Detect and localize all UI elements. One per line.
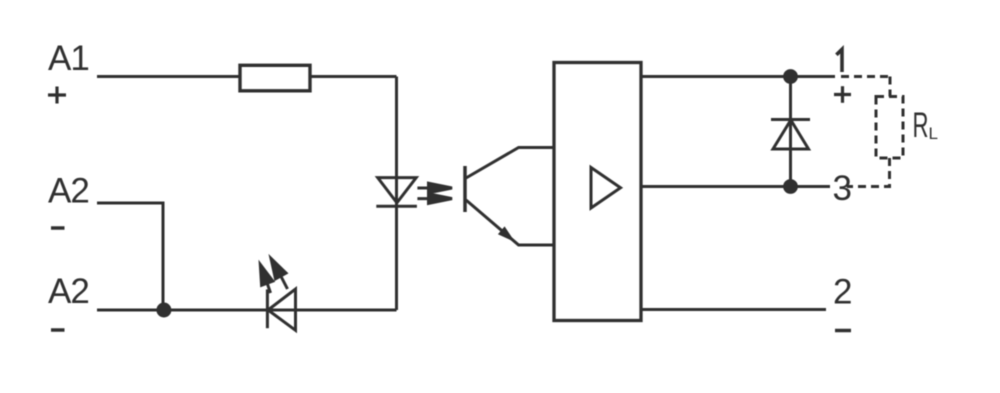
svg-text:L: L xyxy=(929,124,938,143)
svg-text:A2: A2 xyxy=(48,272,89,311)
svg-text:2: 2 xyxy=(833,273,851,312)
svg-text:3: 3 xyxy=(833,169,851,208)
svg-text:A2: A2 xyxy=(48,172,89,211)
svg-text:A1: A1 xyxy=(48,39,89,78)
svg-text:R: R xyxy=(913,106,929,145)
